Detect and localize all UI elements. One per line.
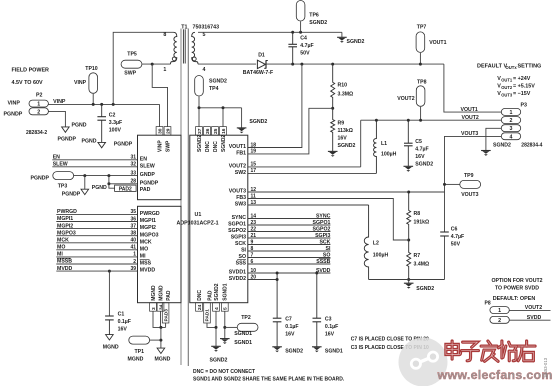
junction R10 top xyxy=(331,63,334,66)
svg-text:MGPI1: MGPI1 xyxy=(140,218,156,224)
svg-text:OPTION FOR VOUT2: OPTION FOR VOUT2 xyxy=(491,278,542,284)
svg-text:16V: 16V xyxy=(325,332,335,338)
wire net EN xyxy=(52,155,137,161)
svg-text:MO: MO xyxy=(57,245,65,251)
svg-text:C1: C1 xyxy=(118,312,125,318)
svg-text:SGND2: SGND2 xyxy=(347,39,365,45)
svg-text:SGND2: SGND2 xyxy=(309,20,327,26)
svg-text:TP8: TP8 xyxy=(417,79,427,85)
junction TP7 xyxy=(419,63,422,66)
svg-text:VINP: VINP xyxy=(53,99,66,105)
ground SGND2 (pin4) xyxy=(210,346,228,363)
svg-text:SWP: SWP xyxy=(124,71,136,77)
svg-text:FIELD POWER: FIELD POWER xyxy=(12,68,50,74)
svg-text:SGND2: SGND2 xyxy=(338,143,356,149)
junction TP6 xyxy=(299,31,302,34)
wire P3 pin3 to ground xyxy=(486,128,501,150)
svg-text:C7: C7 xyxy=(285,317,292,323)
capacitor C6 xyxy=(440,226,464,247)
pin 4 SGND2 xyxy=(213,283,220,311)
svg-text:4.7µF: 4.7µF xyxy=(415,147,428,153)
svg-text:= +24V: = +24V xyxy=(513,76,531,82)
svg-text:15: 15 xyxy=(251,162,257,168)
junction pin28 xyxy=(107,182,110,185)
svg-text:MGND: MGND xyxy=(128,356,144,362)
svg-text:DNC = DO NOT CONNECT: DNC = DO NOT CONNECT xyxy=(193,369,255,375)
svg-text:U1: U1 xyxy=(195,212,202,218)
note DEFAULT VOUTx SETTING xyxy=(477,63,541,97)
connector P2 xyxy=(26,93,48,137)
capacitor C4 xyxy=(288,32,313,64)
wire VOUT3 riser lower xyxy=(444,236,446,280)
wire net MVDD xyxy=(56,266,137,272)
svg-text:4: 4 xyxy=(203,67,206,73)
svg-text:0.1µF: 0.1µF xyxy=(285,324,298,330)
svg-text:MGPO3: MGPO3 xyxy=(57,230,76,236)
wire pin12 VOUT3 rail xyxy=(248,191,445,193)
transformer T1 secondary winding xyxy=(192,32,198,64)
svg-text:31: 31 xyxy=(130,155,136,161)
note C7 placement xyxy=(351,336,429,351)
wire VOUT3 to P3 pin4 xyxy=(445,131,502,232)
U1 power box xyxy=(138,135,182,200)
pin 34 MGND xyxy=(157,285,164,311)
svg-text:GNDP: GNDP xyxy=(140,172,156,178)
svg-text:24: 24 xyxy=(197,304,203,310)
svg-text:VOUT1: VOUT1 xyxy=(229,144,246,150)
wire secondary bottom rail xyxy=(198,63,256,65)
junction T1 riser xyxy=(112,103,115,106)
svg-text:DNC: DNC xyxy=(197,289,203,300)
pin 5 SGND1 xyxy=(221,283,228,311)
svg-text:ADP1031ACPZ-1: ADP1031ACPZ-1 xyxy=(177,220,219,226)
pin 37 MGPI2 xyxy=(130,223,156,231)
svg-text:6: 6 xyxy=(251,259,254,265)
svg-text:3: 3 xyxy=(510,126,513,132)
capacitor C3 xyxy=(313,273,339,347)
capacitor C1 xyxy=(105,271,131,335)
svg-text:EN: EN xyxy=(140,156,147,162)
svg-text:SYNC: SYNC xyxy=(232,215,247,221)
svg-text:MGND: MGND xyxy=(103,344,119,350)
testpoint TP7 xyxy=(416,25,447,65)
svg-text:L1: L1 xyxy=(381,141,387,147)
testpoint TP5 xyxy=(121,52,142,77)
svg-text:17: 17 xyxy=(251,168,257,174)
pin 17 SW2 xyxy=(235,168,257,176)
svg-text:FB1: FB1 xyxy=(236,151,246,157)
wire secondary top rail xyxy=(198,31,342,33)
svg-text:16: 16 xyxy=(221,128,227,134)
pin 24 DNC xyxy=(196,289,203,311)
testpoint TP1 xyxy=(128,336,161,362)
ground SGND1 (C3) xyxy=(312,347,343,355)
svg-text:MGND: MGND xyxy=(155,356,171,362)
junction pin5 xyxy=(223,326,226,329)
wire pin4 stem xyxy=(215,311,217,346)
pin PAD1 xyxy=(204,290,214,323)
svg-text:TO POWER SVDD: TO POWER SVDD xyxy=(495,286,539,292)
svg-text:MVDD: MVDD xyxy=(140,268,156,274)
svg-text:16453-013: 16453-013 xyxy=(543,357,548,378)
svg-text:4: 4 xyxy=(214,307,220,310)
testpoint TP4 xyxy=(195,76,227,108)
svg-text:PAD2: PAD2 xyxy=(119,186,132,192)
pin 30 VINP xyxy=(156,127,163,152)
svg-text:PGND: PGND xyxy=(72,123,87,129)
testpoint TP8 xyxy=(397,79,426,120)
svg-text:3.3MΩ: 3.3MΩ xyxy=(338,91,354,97)
pin 13 SW3 xyxy=(235,200,257,208)
pin 41 MO xyxy=(130,245,148,253)
net label VINP (P2 left) xyxy=(8,100,21,106)
svg-text:SGND1 AND SGND2 SHARE THE SAME: SGND1 AND SGND2 SHARE THE SAME PLANE IN … xyxy=(193,377,345,383)
svg-text:20: 20 xyxy=(251,274,257,280)
pin 9 SCK xyxy=(235,239,253,247)
svg-text:SLEW: SLEW xyxy=(140,163,155,169)
testpoint TP2 xyxy=(225,315,258,337)
pin 35 PWRGD xyxy=(130,209,159,217)
wire FB1 route xyxy=(248,108,333,154)
pin 7 SO xyxy=(239,252,254,260)
svg-text:PGNDP: PGNDP xyxy=(4,112,23,118)
junction MVDD xyxy=(108,270,111,273)
svg-text:VOUT2: VOUT2 xyxy=(525,305,542,311)
svg-text:1: 1 xyxy=(510,110,513,116)
wire MGND stem xyxy=(160,327,162,348)
pin PAD3 xyxy=(162,290,172,323)
net label VOUT1 (P3) xyxy=(461,107,478,113)
svg-text:R10: R10 xyxy=(338,83,348,89)
svg-text:SGPI3: SGPI3 xyxy=(315,233,330,239)
svg-text:100µH: 100µH xyxy=(381,151,397,157)
ground PGND (C2) xyxy=(82,139,133,148)
svg-text:16V: 16V xyxy=(118,327,128,333)
U1 main box xyxy=(190,135,248,303)
pin 15 VOUT2 xyxy=(229,162,257,170)
svg-text:www.elecfans.com: www.elecfans.com xyxy=(437,368,553,382)
svg-text:OUT3: OUT3 xyxy=(501,92,513,97)
svg-text:SW3: SW3 xyxy=(235,202,246,208)
svg-text:5: 5 xyxy=(203,32,206,38)
svg-text:113kΩ: 113kΩ xyxy=(338,128,353,134)
svg-text:10: 10 xyxy=(251,268,257,274)
pin 32 SLEW xyxy=(130,162,154,170)
resistor R8 xyxy=(407,192,430,240)
svg-text:SGND2: SGND2 xyxy=(210,357,228,363)
wire VOUT2 rail xyxy=(361,115,502,121)
svg-text:SSSB: SSSB xyxy=(316,259,330,265)
U1 mcu box xyxy=(138,206,182,302)
svg-text:P2: P2 xyxy=(36,93,43,99)
svg-text:SI: SI xyxy=(241,248,246,254)
svg-text:22: 22 xyxy=(251,226,257,232)
pin 38 MGPO3 xyxy=(130,231,158,239)
svg-text:VOUT1: VOUT1 xyxy=(461,107,478,113)
svg-text:2: 2 xyxy=(510,118,513,124)
svg-text:D1: D1 xyxy=(258,53,265,59)
pin 1 label xyxy=(163,67,166,73)
watermark elecfans logo xyxy=(399,338,553,386)
wire pin13 SW3 xyxy=(248,204,369,206)
svg-text:TP5: TP5 xyxy=(127,52,137,58)
svg-text:PGND: PGND xyxy=(82,139,97,145)
wire VOUT2 riser xyxy=(360,120,362,167)
wire T1 pin8 riser xyxy=(113,32,173,104)
svg-text:SCK: SCK xyxy=(319,239,330,245)
wire net SVDD xyxy=(248,268,331,274)
svg-text:VOUT2: VOUT2 xyxy=(397,96,414,102)
svg-text:5: 5 xyxy=(223,307,229,310)
svg-text:C4: C4 xyxy=(300,36,307,42)
wire SGND2 bottom rail xyxy=(369,279,445,281)
capacitor C2 xyxy=(97,103,122,142)
svg-text:SGPO2: SGPO2 xyxy=(228,228,246,234)
pin 1 MI xyxy=(133,252,146,260)
wire net MO xyxy=(56,245,137,251)
svg-text:FB3: FB3 xyxy=(236,195,246,201)
wire net MCK xyxy=(56,238,137,244)
resistor R9 xyxy=(331,108,356,151)
pin 23 SGPO1 xyxy=(228,220,256,228)
svg-text:C5: C5 xyxy=(415,139,422,145)
svg-text:1: 1 xyxy=(498,308,501,314)
svg-text:= −15V: = −15V xyxy=(513,91,531,97)
inductor L2 xyxy=(364,205,388,280)
svg-text:36: 36 xyxy=(130,216,136,222)
wire VINP to pin30 xyxy=(159,104,161,126)
svg-text:SYNC: SYNC xyxy=(316,213,331,219)
svg-text:DNC: DNC xyxy=(205,141,211,152)
isolation barrier xyxy=(181,29,188,367)
junction TP3 gnd xyxy=(83,174,86,177)
svg-text:TP10: TP10 xyxy=(85,66,98,72)
svg-text:100µH: 100µH xyxy=(373,252,389,258)
svg-text:9: 9 xyxy=(251,239,254,245)
svg-text:PAD3: PAD3 xyxy=(163,309,169,322)
svg-text:50V: 50V xyxy=(300,51,310,57)
svg-text:MGPI1: MGPI1 xyxy=(57,216,73,222)
svg-text:SGPO1: SGPO1 xyxy=(313,220,331,226)
resistor R7 xyxy=(407,240,430,280)
op-amp U1 ADP1031ACPZ-1 label xyxy=(177,212,219,226)
junction C3 riser xyxy=(315,272,318,275)
note DNC xyxy=(193,369,345,382)
svg-text:2: 2 xyxy=(133,259,136,265)
junction pin33 xyxy=(107,174,110,177)
svg-text:SGPI3: SGPI3 xyxy=(231,235,246,241)
junction R8 top xyxy=(407,191,410,194)
ground SGND2 (C7) xyxy=(272,347,303,355)
svg-text:MGND: MGND xyxy=(158,285,164,301)
svg-text:750316743: 750316743 xyxy=(193,24,220,30)
svg-text:VOUT2: VOUT2 xyxy=(462,115,479,121)
svg-text:SVDD1: SVDD1 xyxy=(229,270,246,276)
svg-text:VOUT1: VOUT1 xyxy=(429,40,446,46)
ground PGND (TP3) xyxy=(62,185,107,197)
pin 5 label xyxy=(203,32,206,38)
pin 33 GNDP xyxy=(130,170,155,178)
svg-text:282834-4: 282834-4 xyxy=(521,143,542,149)
svg-text:SVDD: SVDD xyxy=(527,315,542,321)
wire net SCK xyxy=(248,239,331,245)
inductor L1 xyxy=(374,120,397,173)
wire MGND bracket xyxy=(153,311,166,327)
junction R10/R9 xyxy=(331,107,334,110)
svg-text:SI: SI xyxy=(325,246,330,252)
wire P2 pin2 to PGND xyxy=(48,111,65,127)
svg-text:MGPI2: MGPI2 xyxy=(57,223,73,229)
svg-text:30: 30 xyxy=(157,128,163,134)
pin 14 SYNC xyxy=(232,213,257,221)
svg-text:TP2: TP2 xyxy=(241,315,251,321)
svg-text:SGND2: SGND2 xyxy=(221,135,227,152)
svg-text:R8: R8 xyxy=(414,211,421,217)
connector P3 xyxy=(501,103,542,149)
svg-text:PAD: PAD xyxy=(140,187,151,193)
pin PAD2 xyxy=(115,185,137,192)
wire net MSSB xyxy=(56,258,137,265)
wire pin5 stem xyxy=(224,311,226,338)
svg-text:MGND: MGND xyxy=(151,285,157,301)
ground SGND2 (top rail) xyxy=(337,32,364,45)
svg-text:C6: C6 xyxy=(451,226,458,232)
svg-text:18: 18 xyxy=(251,142,257,148)
svg-text:BAT46W-7-F: BAT46W-7-F xyxy=(243,70,273,76)
wire PAD1 to SGND2 xyxy=(207,323,216,328)
resistor R10 xyxy=(331,64,354,108)
svg-text:TP7: TP7 xyxy=(417,25,427,31)
pin 2 MSS xyxy=(133,259,151,267)
svg-text:32: 32 xyxy=(130,162,136,168)
svg-text:26: 26 xyxy=(205,128,211,134)
svg-text:VOUT3: VOUT3 xyxy=(461,131,478,137)
testpoint TP3 xyxy=(31,172,138,190)
junction C7 riser top xyxy=(276,272,279,275)
svg-text:40: 40 xyxy=(130,238,136,244)
ground SGND2 (P3) xyxy=(481,143,511,156)
wire TP4 rail xyxy=(199,108,242,127)
svg-text:EN: EN xyxy=(53,155,60,161)
svg-text:37: 37 xyxy=(130,223,136,229)
svg-text:SGPO2: SGPO2 xyxy=(313,226,331,232)
svg-text:39: 39 xyxy=(130,266,136,272)
pin 21 SGPI3 xyxy=(231,233,257,241)
wire net PWRGD xyxy=(56,209,137,215)
svg-text:0.1µF: 0.1µF xyxy=(118,319,131,325)
svg-text:VOUT3: VOUT3 xyxy=(461,192,478,198)
svg-text:SGND2: SGND2 xyxy=(415,162,433,168)
svg-text:P3: P3 xyxy=(521,103,528,109)
svg-text:TP6: TP6 xyxy=(309,13,319,19)
ground SGND2 (TP4) xyxy=(237,108,268,134)
svg-text:3.4MΩ: 3.4MΩ xyxy=(414,262,430,268)
svg-text:MO: MO xyxy=(140,246,148,252)
wire P8 pin2 xyxy=(509,315,550,321)
svg-text:1: 1 xyxy=(163,67,166,73)
svg-text:VINP: VINP xyxy=(157,140,163,152)
testpoint TP10 xyxy=(74,66,98,104)
pin 27 SGND2 xyxy=(196,127,203,152)
wire net SO xyxy=(248,252,331,258)
wire net SGPO2 xyxy=(248,226,331,232)
pin 39 MVDD xyxy=(130,266,155,274)
junction L1 top xyxy=(375,119,378,122)
svg-text:VINP: VINP xyxy=(74,80,87,86)
note FIELD POWER xyxy=(12,68,50,87)
svg-text:100V: 100V xyxy=(109,128,122,134)
svg-text:SLEW: SLEW xyxy=(53,162,68,168)
wire pin18 riser xyxy=(248,64,302,147)
diode D1 BAT46W-7-F xyxy=(243,53,273,76)
svg-text:13: 13 xyxy=(251,200,257,206)
svg-text:MCK: MCK xyxy=(57,238,69,244)
svg-text:MVDD: MVDD xyxy=(57,266,73,272)
svg-text:38: 38 xyxy=(130,231,136,237)
svg-text:29: 29 xyxy=(165,128,171,134)
svg-text:4: 4 xyxy=(510,134,513,140)
pin 40 MCK xyxy=(130,238,151,246)
svg-text:SGND2: SGND2 xyxy=(214,283,220,300)
svg-text:3.3µF: 3.3µF xyxy=(109,120,122,126)
pin 8 label xyxy=(163,32,166,38)
junction TP10 xyxy=(92,103,95,106)
svg-text:SGND1: SGND1 xyxy=(325,348,343,354)
svg-text:SCK: SCK xyxy=(235,241,246,247)
ground PGND (P2) xyxy=(58,123,87,143)
svg-text:33: 33 xyxy=(130,170,136,176)
svg-text:PWRGD: PWRGD xyxy=(57,209,77,215)
wire FB3 route xyxy=(248,199,409,241)
junction R7 bottom xyxy=(407,278,410,281)
pin 11 FB3 xyxy=(236,193,256,201)
transformer T1 primary phase dot xyxy=(172,57,176,61)
wire pin28 PGNDP xyxy=(109,183,138,185)
wire net SSSB xyxy=(248,259,331,265)
svg-text:DNC: DNC xyxy=(213,141,219,152)
svg-text:19: 19 xyxy=(251,149,257,155)
svg-text:27: 27 xyxy=(197,128,203,134)
capacitor C5 xyxy=(404,120,433,168)
wire TP5 to T1 pin1 xyxy=(142,63,171,65)
svg-text:4.7µF: 4.7µF xyxy=(300,43,313,49)
svg-text:TP1: TP1 xyxy=(135,349,145,355)
testpoint TP6 xyxy=(296,1,327,33)
svg-text:OUTx: OUTx xyxy=(506,65,518,70)
svg-text:MCK: MCK xyxy=(140,239,152,245)
svg-text:P8: P8 xyxy=(485,301,491,307)
ground SGND2 (bottom rail) xyxy=(404,280,434,292)
svg-text:MGPO3: MGPO3 xyxy=(140,232,159,238)
svg-text:21: 21 xyxy=(251,233,257,239)
wire VOUT1 to P3 xyxy=(444,64,501,112)
svg-text:VINP: VINP xyxy=(8,100,21,106)
svg-text:23: 23 xyxy=(251,220,257,226)
svg-text:DEFAULT V: DEFAULT V xyxy=(477,63,507,69)
svg-text:C2: C2 xyxy=(109,113,116,119)
svg-text:SGND1: SGND1 xyxy=(234,331,252,337)
svg-text:8: 8 xyxy=(251,246,254,252)
pin 26 DNC xyxy=(204,127,211,152)
svg-text:VOUT2: VOUT2 xyxy=(229,164,246,170)
ground SGND2 (R9) xyxy=(328,151,338,156)
svg-text:SGND2: SGND2 xyxy=(416,286,434,292)
pin 16 SGND2 xyxy=(220,127,227,152)
svg-text:= +5.15V: = +5.15V xyxy=(513,84,535,90)
pin 4 label xyxy=(203,67,206,73)
svg-text:1: 1 xyxy=(133,252,136,258)
transformer T1 secondary phase dot xyxy=(192,57,196,61)
